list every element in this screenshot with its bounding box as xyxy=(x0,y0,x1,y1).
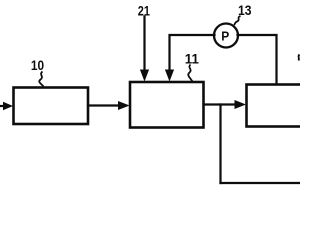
leader squiggle 11 xyxy=(188,65,192,82)
svg-text:10: 10 xyxy=(31,57,44,73)
svg-text:P: P xyxy=(221,29,229,44)
wire P right branch to box12 xyxy=(238,35,277,84)
leader squiggle 13 xyxy=(234,16,241,25)
wire feedback branch down xyxy=(219,105,221,184)
box 12 (right, cropped) xyxy=(247,85,309,127)
wire 21 vertical xyxy=(143,17,145,74)
box 11 xyxy=(130,82,204,128)
svg-text:21: 21 xyxy=(138,3,150,19)
box 10 xyxy=(14,88,89,125)
wire box11 to box12 xyxy=(204,103,239,105)
leader squiggle 10 xyxy=(39,72,43,87)
arrowhead P branch into box11 top xyxy=(165,70,174,82)
arrowhead into box10 xyxy=(3,102,13,110)
leader squiggle 12 cropped at right edge xyxy=(298,55,299,61)
wire feedback bottom horizontal xyxy=(221,182,300,184)
svg-text:11: 11 xyxy=(185,51,199,66)
arrowhead 21 into box11 top xyxy=(140,70,149,82)
wire box10 to box11 xyxy=(88,104,121,106)
pressure gauge P circle U13 xyxy=(214,24,238,48)
wire P left branch to box11 xyxy=(170,35,215,73)
wire input left xyxy=(0,105,5,107)
arrowhead into box11 left xyxy=(118,101,130,110)
arrowhead into box12 left xyxy=(235,100,247,109)
